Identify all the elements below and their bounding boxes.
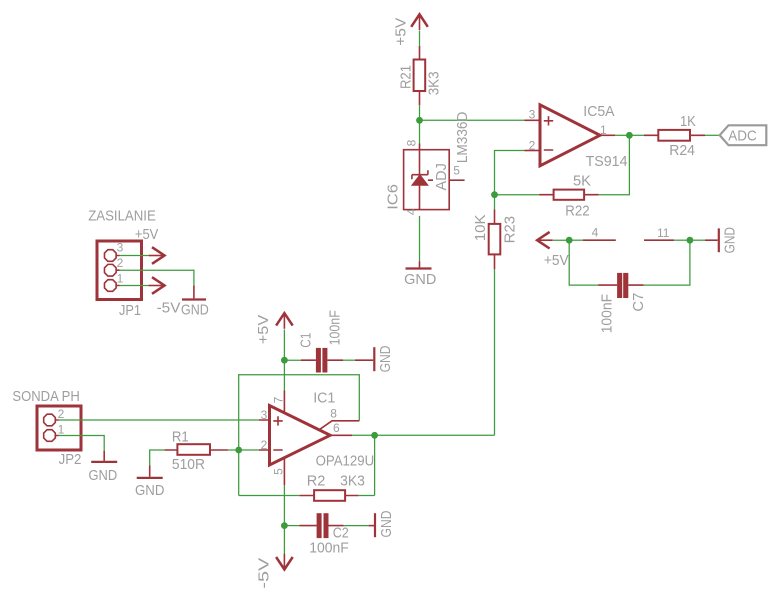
- IC1 reference label: [313, 390, 335, 407]
- wire R24 to ADC flag: [705, 134, 720, 136]
- svg-text:6: 6: [333, 421, 340, 435]
- svg-text:1: 1: [600, 123, 607, 137]
- LM336D value label: [454, 112, 471, 164]
- svg-text:-5V: -5V: [157, 300, 181, 317]
- -5V label (JP1): [157, 300, 181, 317]
- wire IC6 pin4 to GND: [419, 216, 421, 262]
- node C1 junction: [281, 357, 288, 364]
- svg-text:ADJ: ADJ: [433, 163, 450, 190]
- wire junction to pin 4 stub: [569, 239, 583, 241]
- svg-text:C1: C1: [297, 333, 314, 348]
- wire junction down to IC6: [419, 120, 421, 143]
- IC6 LM336D voltage reference: [404, 144, 465, 210]
- wire JP1 pin3 to +5V: [120, 255, 150, 257]
- svg-text:LM336D: LM336D: [454, 112, 471, 164]
- wire R1 right to inverting node: [228, 449, 239, 451]
- pin 4 label (IC6): [404, 208, 418, 215]
- pin 11 power stub: [644, 239, 674, 241]
- connector JP2: [37, 406, 81, 450]
- node output junction (IC1): [371, 432, 378, 439]
- wire IC1 pin6 to output junction: [352, 434, 374, 436]
- 5K value label (R22): [573, 173, 591, 190]
- pin 4 power stub: [583, 239, 616, 241]
- svg-text:C7: C7: [630, 293, 647, 312]
- svg-text:3K3: 3K3: [426, 71, 443, 95]
- svg-text:1K: 1K: [680, 113, 696, 130]
- svg-text:3K3: 3K3: [340, 473, 365, 490]
- svg-text:-5V: -5V: [255, 558, 272, 589]
- wire JP2 pin1 to GND: [59, 436, 104, 451]
- svg-text:ZASILANIE: ZASILANIE: [88, 207, 156, 224]
- wire R1 left to GND: [150, 450, 165, 466]
- JP1 label: [119, 302, 141, 319]
- C2 label: [333, 525, 349, 542]
- 1K value label (R24): [680, 113, 696, 130]
- wire feedback loop (pin8 guard): [239, 375, 360, 496]
- wire power junction down to C7: [569, 240, 598, 285]
- pin 5 label (IC6 ADJ): [453, 164, 460, 178]
- 510R value label (R1): [172, 456, 205, 473]
- ground (R1): [135, 466, 165, 499]
- +5V supply arrow (op-amp power): [537, 232, 553, 249]
- TS914 value label: [586, 153, 628, 170]
- node output junction: [626, 132, 633, 139]
- svg-text:3: 3: [529, 107, 536, 121]
- wire junction to R24: [629, 134, 644, 136]
- resistor R24: [644, 130, 705, 141]
- svg-text:100nF: 100nF: [309, 539, 349, 556]
- node feedback junction: [491, 191, 498, 198]
- pin 1 label (JP2): [58, 423, 65, 437]
- ground (right, rotated): [705, 227, 739, 254]
- svg-text:8: 8: [330, 407, 337, 421]
- svg-text:TS914: TS914: [586, 153, 628, 170]
- R1 label: [172, 429, 189, 446]
- wire C7 to ground junction: [644, 240, 690, 285]
- node C2 junction: [281, 522, 288, 529]
- svg-text:2: 2: [529, 139, 536, 153]
- -5V supply arrow (JP1): [149, 277, 165, 294]
- ground (C2, rotated): [369, 510, 395, 537]
- pin 8 label (IC6): [404, 139, 418, 146]
- resistor R21: [414, 46, 426, 105]
- pin 2 label (IC5A): [529, 139, 536, 153]
- svg-text:R1: R1: [172, 429, 189, 446]
- svg-text:GND: GND: [404, 271, 436, 288]
- wire C1 to GND: [343, 359, 355, 361]
- R2 label: [307, 473, 326, 490]
- pin 3 label (JP1): [117, 241, 124, 255]
- +5V supply arrow (IC1 power): [276, 313, 293, 329]
- ground (JP1): [181, 285, 209, 318]
- pin 4 label: [592, 225, 599, 239]
- resistor R23: [489, 210, 501, 270]
- svg-text:GND: GND: [135, 482, 165, 499]
- svg-text:7: 7: [272, 396, 286, 403]
- pin 8 label (IC1): [330, 407, 337, 421]
- wire R21 to junction: [419, 105, 421, 120]
- svg-text:+5V: +5V: [255, 315, 272, 344]
- svg-text:IC1: IC1: [313, 390, 335, 407]
- svg-text:100nF: 100nF: [327, 310, 344, 345]
- pin 5 label (IC1): [272, 468, 286, 475]
- capacitor C1: [301, 348, 343, 373]
- node junction R21/IC6/IC5A: [416, 117, 423, 124]
- op-amp IC5A: [525, 105, 616, 166]
- wire JP1 pin2 to GND: [120, 270, 194, 285]
- pin 2 label (JP1): [117, 256, 124, 270]
- -5V supply arrow: [276, 554, 293, 570]
- svg-text:GND: GND: [377, 345, 394, 372]
- capacitor C7: [598, 273, 644, 298]
- svg-text:2: 2: [117, 256, 124, 270]
- wire C1 junction to IC1 pin7: [283, 360, 285, 390]
- +5V supply arrow (top): [411, 14, 428, 30]
- svg-text:ADC: ADC: [728, 127, 757, 144]
- svg-text:OPA129U: OPA129U: [316, 452, 375, 469]
- +5V label (op-amp power): [544, 252, 569, 269]
- svg-text:1: 1: [117, 271, 124, 285]
- svg-text:R21: R21: [398, 65, 415, 89]
- node power junction: [566, 237, 573, 244]
- svg-text:3: 3: [117, 241, 124, 255]
- svg-text:JP1: JP1: [119, 302, 141, 319]
- IC5A reference label: [583, 103, 614, 120]
- wire inverting node to IC1 pin2: [239, 449, 259, 451]
- 100nF value label (C2): [309, 539, 349, 556]
- R23 label: [501, 216, 518, 244]
- -5V label: [255, 558, 272, 589]
- R22 label: [565, 202, 589, 219]
- wire JP2 pin2 to IC1 pin3: [59, 419, 259, 421]
- svg-text:GND: GND: [378, 510, 395, 537]
- svg-text:2: 2: [58, 407, 65, 421]
- svg-text:R23: R23: [501, 216, 518, 244]
- svg-text:JP2: JP2: [59, 451, 82, 468]
- +5V label (JP1): [135, 226, 158, 243]
- svg-text:5: 5: [272, 468, 286, 475]
- svg-text:5K: 5K: [573, 173, 591, 190]
- ground under IC6: [404, 262, 436, 289]
- wire R23 down to IC1 output net: [494, 269, 496, 435]
- svg-text:3: 3: [261, 408, 268, 422]
- wire IC1 pin5 to C2 junction: [283, 485, 285, 526]
- SONDA PH title: [12, 388, 79, 405]
- wire feedback node to R22: [495, 194, 540, 196]
- node ground junction: [687, 237, 694, 244]
- OPA129U value label: [316, 452, 375, 469]
- 100nF value label (C7): [599, 294, 616, 333]
- R21 label: [398, 65, 415, 89]
- svg-text:IC6: IC6: [385, 184, 402, 210]
- svg-text:1: 1: [58, 423, 65, 437]
- svg-text:+5V: +5V: [393, 18, 410, 46]
- R24 label: [669, 142, 695, 159]
- svg-text:+5V: +5V: [135, 226, 158, 243]
- wire R2 left to inverting column: [239, 495, 300, 497]
- wire pin 11 to ground junction: [674, 239, 690, 241]
- svg-text:R24: R24: [669, 142, 695, 159]
- C7 label: [630, 293, 647, 312]
- svg-text:4: 4: [592, 225, 599, 239]
- wire junction down to R22: [599, 135, 630, 194]
- +5V label (top): [393, 18, 410, 46]
- wire JP1 pin1 to -5V: [120, 285, 150, 287]
- svg-text:GND: GND: [89, 467, 118, 484]
- wire R2 right to output column: [359, 495, 375, 497]
- ground (JP2): [89, 451, 118, 485]
- svg-text:100nF: 100nF: [599, 294, 616, 333]
- svg-text:10K: 10K: [472, 214, 489, 241]
- svg-text:4: 4: [404, 208, 418, 215]
- resistor R22: [539, 190, 598, 200]
- 10K value label (R23): [472, 214, 489, 241]
- wire IC5A pin2 to feedback node: [495, 151, 525, 195]
- capacitor C2: [299, 513, 343, 538]
- svg-text:8: 8: [404, 139, 418, 146]
- pin 1 label (JP1): [117, 271, 124, 285]
- connector JP1: [97, 241, 142, 300]
- wire junction to C2: [284, 525, 299, 527]
- svg-text:5: 5: [453, 164, 460, 178]
- svg-text:+5V: +5V: [544, 252, 569, 269]
- resistor R2: [299, 490, 358, 501]
- 3K3 value label (R21): [426, 71, 443, 95]
- svg-text:2: 2: [261, 438, 268, 452]
- pin 3 label (IC1): [261, 408, 268, 422]
- op-amp IC1: [259, 391, 359, 486]
- pin 1 label (IC5A): [600, 123, 607, 137]
- ADJ label (IC6): [433, 163, 450, 190]
- wire +5V to C1 junction: [283, 330, 285, 361]
- IC6 reference label: [385, 184, 402, 210]
- wire feedback node down to R23: [494, 195, 496, 210]
- pin 7 label (IC1): [272, 396, 286, 403]
- svg-text:11: 11: [657, 226, 670, 240]
- wire C2 junction to -5V: [283, 526, 285, 555]
- svg-text:510R: 510R: [172, 456, 205, 473]
- svg-text:R2: R2: [307, 473, 326, 490]
- 3K3 value label (R2): [340, 473, 365, 490]
- svg-text:GND: GND: [722, 227, 739, 254]
- 100nF value label (C1): [327, 310, 344, 345]
- resistor R1: [164, 444, 228, 455]
- node inverting junction: [235, 447, 242, 454]
- pin 2 label (JP2): [58, 407, 65, 421]
- +5V supply arrow (JP1): [149, 247, 165, 264]
- svg-text:IC5A: IC5A: [583, 103, 614, 120]
- wire C2 to GND: [344, 525, 369, 527]
- wire output junction to R23 column: [375, 434, 495, 436]
- ground (C1, rotated): [355, 345, 394, 372]
- svg-text:SONDA PH: SONDA PH: [12, 388, 79, 405]
- wire output junction down to R2: [374, 435, 376, 495]
- wire junction to GND symbol: [690, 239, 705, 241]
- pin 11 label: [657, 226, 670, 240]
- svg-text:GND: GND: [181, 301, 209, 318]
- wire +5V arrow to power junction: [553, 239, 569, 241]
- pin 3 label (IC5A): [529, 107, 536, 121]
- JP2 label: [59, 451, 82, 468]
- pin 2 label (IC1): [261, 438, 268, 452]
- +5V label (IC1 power): [255, 315, 272, 344]
- C1 label: [297, 333, 314, 348]
- wire +5V to R21: [419, 31, 421, 47]
- svg-text:R22: R22: [565, 202, 589, 219]
- pin 6 label (IC1): [333, 421, 340, 435]
- wire junction to C1: [284, 359, 301, 361]
- ADC net flag: [720, 125, 767, 145]
- wire IC5A out to junction: [615, 134, 629, 136]
- wire junction to IC5A pin3: [420, 119, 525, 121]
- ZASILANIE title: [88, 207, 156, 224]
